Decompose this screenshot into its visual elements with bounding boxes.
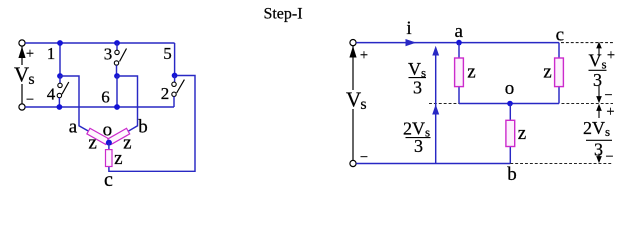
- node bottom rail at leg6: [114, 104, 120, 110]
- terminal - (left bottom): [19, 104, 25, 110]
- svg-text:Step-I: Step-I: [263, 5, 302, 22]
- dashed mid left: [429, 103, 459, 105]
- svg-text:a: a: [69, 116, 78, 137]
- svg-text:o: o: [505, 78, 515, 99]
- svg-text:−: −: [26, 92, 34, 108]
- dashed bottom right: [510, 163, 613, 165]
- measurement line Vs/3 and 2Vs/3: [435, 52, 437, 164]
- svg-text:3: 3: [104, 45, 113, 64]
- svg-text:Vs: Vs: [14, 63, 35, 89]
- svg-text:z: z: [123, 133, 131, 154]
- winding a (z): [87, 128, 109, 144]
- svg-text:+: +: [607, 47, 615, 63]
- winding c (z): [106, 150, 113, 167]
- wire phase a branch: [60, 76, 109, 143]
- wire bottom (right circuit): [356, 163, 510, 165]
- impedance z (branch b): [506, 120, 515, 146]
- current arrow i: [406, 39, 417, 46]
- wire switch S1 closed: [59, 43, 61, 76]
- dashed mid right: [562, 103, 614, 105]
- source Vs (left) line: [21, 46, 23, 104]
- svg-text:c: c: [104, 169, 113, 190]
- svg-text:z: z: [543, 62, 551, 83]
- svg-text:+: +: [606, 104, 614, 120]
- dimension arrow mid right (down): [598, 86, 600, 99]
- wire branch a: [458, 43, 460, 104]
- svg-text:4: 4: [47, 85, 56, 104]
- svg-text:−: −: [604, 87, 612, 103]
- source Vs (right) arrow: [349, 46, 356, 58]
- wire switch S5 closed: [174, 43, 176, 76]
- node mid leg5: [172, 73, 178, 79]
- svg-text:2Vs: 2Vs: [583, 118, 610, 139]
- svg-text:+: +: [26, 46, 34, 62]
- svg-text:z: z: [467, 62, 475, 83]
- wire top (right circuit): [356, 42, 559, 44]
- svg-text:Vs: Vs: [346, 88, 367, 114]
- svg-text:o: o: [103, 119, 113, 140]
- label 2Vs/3 (left measure): [403, 119, 431, 157]
- switch S3 open: [114, 43, 126, 76]
- wire switch S6 closed: [116, 76, 118, 107]
- node bottom rail at leg4: [57, 104, 63, 110]
- svg-text:6: 6: [101, 88, 110, 107]
- switch S2 open: [172, 76, 185, 108]
- impedance z (branch c): [555, 58, 564, 87]
- svg-text:+: +: [360, 48, 368, 64]
- svg-text:c: c: [556, 25, 564, 46]
- svg-text:z: z: [518, 123, 526, 144]
- node o center: [106, 140, 112, 146]
- svg-text:Vs: Vs: [588, 51, 606, 72]
- svg-text:a: a: [454, 21, 463, 42]
- dimension arrow top right (up): [598, 47, 600, 56]
- dimension arrow bottom right (down): [598, 154, 600, 161]
- svg-text:−: −: [605, 149, 613, 165]
- wire phase c branch: [109, 76, 195, 172]
- node top rail at leg3: [114, 40, 120, 46]
- svg-text:5: 5: [163, 44, 172, 63]
- wire top rail: [25, 42, 174, 44]
- dashed extension top right: [561, 42, 613, 44]
- wire branch b: [509, 104, 511, 164]
- terminal - (right bottom): [350, 160, 356, 166]
- winding b (z): [108, 128, 130, 144]
- svg-text:1: 1: [47, 44, 56, 63]
- wire mid (right circuit): [459, 103, 559, 105]
- wire branch c: [558, 43, 560, 104]
- terminal + (right top): [350, 40, 356, 46]
- label Vs/3 (right measure): [588, 51, 606, 91]
- wire bottom rail: [25, 106, 174, 108]
- label 2Vs/3 (right measure): [583, 118, 612, 160]
- dimension arrow below mid right (up): [598, 108, 600, 119]
- svg-text:2: 2: [161, 84, 170, 103]
- impedance z (branch a): [455, 58, 464, 87]
- svg-text:3: 3: [413, 78, 422, 98]
- svg-text:b: b: [507, 164, 517, 185]
- source Vs (right) line: [352, 46, 354, 161]
- label Vs/3 (left measure): [408, 59, 426, 98]
- svg-text:z: z: [114, 148, 122, 169]
- node mid leg3: [114, 73, 120, 79]
- arrowhead Vs/3 up: [432, 46, 439, 56]
- switch S4 open: [57, 76, 69, 107]
- arrowhead 2Vs/3 up: [432, 104, 439, 114]
- svg-text:3: 3: [594, 140, 603, 160]
- svg-text:i: i: [406, 18, 411, 39]
- svg-text:3: 3: [593, 70, 602, 90]
- node o (right): [507, 101, 513, 107]
- svg-text:z: z: [88, 133, 96, 154]
- terminal + (left top): [19, 40, 25, 46]
- node a: [456, 40, 462, 46]
- node top rail at leg1: [57, 40, 63, 46]
- wire phase b branch: [109, 76, 138, 143]
- node mid leg1: [57, 73, 63, 79]
- svg-text:3: 3: [414, 136, 423, 156]
- source Vs (left) arrow: [18, 47, 25, 59]
- svg-text:b: b: [138, 116, 148, 137]
